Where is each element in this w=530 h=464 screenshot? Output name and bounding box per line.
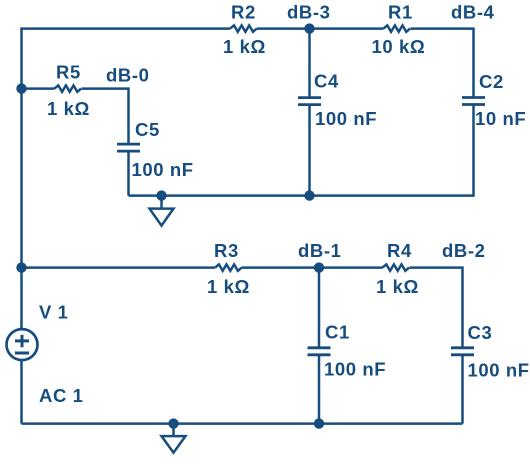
wire left rail and top rail to R2 xyxy=(22,29,231,424)
node dB-1 xyxy=(314,262,324,272)
svg-text:R1: R1 xyxy=(388,2,413,23)
wire C1 to bottom rail xyxy=(318,355,321,424)
node R5 tap xyxy=(16,83,26,93)
node top ground xyxy=(156,190,166,200)
svg-text:C1: C1 xyxy=(325,322,350,343)
svg-text:R3: R3 xyxy=(214,240,239,261)
svg-text:C5: C5 xyxy=(135,119,160,140)
svg-text:100 nF: 100 nF xyxy=(324,359,386,380)
node C4 bottom xyxy=(304,190,314,200)
wire R2 to R1 xyxy=(257,27,384,30)
wire R1 to dB-4 corner and down to C2 xyxy=(411,29,474,98)
wire bottom rail xyxy=(22,422,463,425)
wire left node to R5 xyxy=(22,87,55,90)
ground top xyxy=(150,196,174,226)
ground bottom xyxy=(162,424,186,453)
wire dB-3 down to C4 xyxy=(308,29,311,98)
svg-text:100 nF: 100 nF xyxy=(315,108,377,129)
svg-text:V 1: V 1 xyxy=(39,302,69,323)
svg-text:dB-1: dB-1 xyxy=(298,240,342,261)
capacitor C1 xyxy=(308,348,331,355)
svg-text:dB-2: dB-2 xyxy=(442,240,486,261)
svg-text:AC 1: AC 1 xyxy=(39,385,84,406)
wire R5 to dB-0 corner down to C5 xyxy=(82,89,129,145)
svg-text:R2: R2 xyxy=(231,2,256,23)
capacitor C4 xyxy=(298,98,321,105)
svg-text:10 kΩ: 10 kΩ xyxy=(372,36,426,57)
node bottom ground xyxy=(168,418,178,428)
svg-text:R4: R4 xyxy=(387,240,412,261)
wire R3 to R4 xyxy=(242,266,383,269)
svg-text:dB-0: dB-0 xyxy=(106,65,150,86)
svg-text:C2: C2 xyxy=(479,71,504,92)
wire C5 to rail xyxy=(127,151,130,196)
resistor R1 xyxy=(384,25,411,31)
svg-text:1 kΩ: 1 kΩ xyxy=(207,276,250,297)
wire C2 to top ground rail xyxy=(129,105,474,196)
svg-text:1 kΩ: 1 kΩ xyxy=(223,36,266,57)
svg-text:dB-4: dB-4 xyxy=(451,2,495,23)
voltage source V1 xyxy=(7,329,38,360)
svg-text:R5: R5 xyxy=(56,61,81,82)
resistor R5 xyxy=(55,85,82,91)
svg-text:C4: C4 xyxy=(314,71,339,92)
wire R4 to dB-2 corner down to C3 xyxy=(410,268,463,348)
svg-text:10 nF: 10 nF xyxy=(475,108,526,129)
svg-text:100 nF: 100 nF xyxy=(468,360,530,381)
resistor R2 xyxy=(230,25,257,31)
wire dB-1 down to C1 xyxy=(318,268,321,348)
node dB-3 xyxy=(304,23,314,33)
wire C4 to rail xyxy=(308,105,311,196)
svg-text:1 kΩ: 1 kΩ xyxy=(47,98,90,119)
svg-text:100 nF: 100 nF xyxy=(132,159,194,180)
capacitor C2 xyxy=(462,98,485,105)
svg-text:1 kΩ: 1 kΩ xyxy=(376,276,419,297)
resistor R3 xyxy=(215,264,242,270)
resistor R4 xyxy=(383,264,410,270)
wire C3 to bottom rail xyxy=(461,355,464,424)
capacitor C5 xyxy=(117,144,140,151)
svg-text:dB-3: dB-3 xyxy=(287,2,331,23)
node C1 bottom xyxy=(314,418,324,428)
node left dB-1 row xyxy=(16,262,26,272)
capacitor C3 xyxy=(451,348,474,355)
svg-text:C3: C3 xyxy=(468,322,493,343)
wire row dB-1 from left wire to R3 xyxy=(22,266,216,269)
